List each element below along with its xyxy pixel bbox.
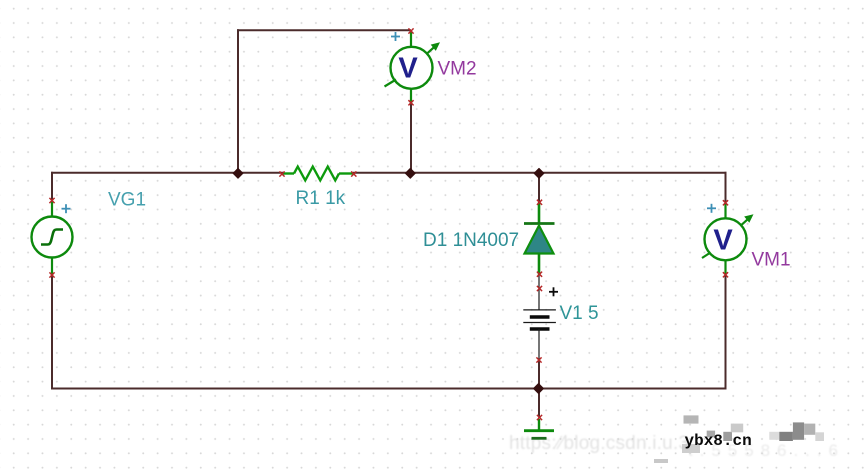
plus sign of VM1	[707, 204, 716, 213]
wire top branch horizontal	[237, 29, 411, 31]
svg-text:V: V	[398, 53, 418, 85]
wire left vertical lower	[51, 275, 53, 390]
wire left vertical upper	[51, 172, 53, 201]
svg-text:ybx8.cn: ybx8.cn	[685, 432, 752, 450]
plus sign of VG1	[62, 204, 71, 213]
wire ground stub	[538, 389, 540, 418]
diode D1	[524, 203, 555, 275]
node C junction dot	[534, 168, 544, 178]
wire bottom horizontal	[51, 388, 727, 390]
pin marks red x	[49, 28, 728, 420]
svg-text:V: V	[713, 225, 733, 257]
node A junction dot	[233, 168, 243, 178]
svg-text:V1 5: V1 5	[560, 303, 599, 324]
wire mid horizontal right segment	[353, 172, 727, 174]
battery V1	[523, 275, 556, 360]
ground	[524, 419, 554, 438]
plus sign of V1	[549, 287, 558, 296]
wire right vertical upper	[725, 172, 727, 203]
voltmeter VM1	[702, 203, 754, 275]
wire right vertical lower	[725, 275, 727, 390]
svg-text:D1 1N4007: D1 1N4007	[423, 230, 519, 251]
plus sign of VM2	[391, 32, 400, 41]
svg-text:VM2: VM2	[438, 59, 477, 80]
wire mid horizontal left segment	[51, 172, 283, 174]
mosaic censor blocks	[654, 415, 824, 463]
svg-text:VM1: VM1	[752, 249, 791, 270]
wire battery to bottom wire	[538, 360, 540, 389]
wire diode branch top	[538, 172, 540, 203]
node B junction dot	[405, 168, 415, 178]
svg-text:https:∕∕blog.csdn.i.u.3: https:∕∕blog.csdn.i.u.3	[509, 433, 689, 454]
node D junction dot	[534, 384, 544, 394]
wire top branch vertical at node A	[237, 29, 239, 173]
wire VM2 bottom to mid wire	[410, 103, 412, 173]
svg-text:VG1: VG1	[108, 190, 146, 211]
watermark blog url	[509, 433, 689, 454]
generator VG1	[32, 201, 73, 275]
resistor R1	[283, 167, 353, 181]
watermark ghost row bottom right	[688, 441, 838, 460]
voltmeter VM2	[385, 32, 441, 104]
svg-text:R1 1k: R1 1k	[296, 188, 346, 209]
